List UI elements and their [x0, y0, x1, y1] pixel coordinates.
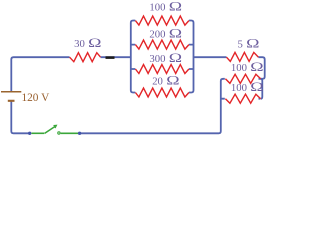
svg-text:100: 100 [231, 82, 247, 94]
svg-text:300: 300 [149, 53, 165, 65]
wire: 30ohm to parallel block [101, 56, 131, 58]
svg-text:Ω: Ω [88, 36, 101, 50]
switch lever [45, 126, 56, 133]
wire: 5ohm right and down to row A [259, 57, 265, 79]
wire: bottom left from switch to battery [11, 101, 29, 133]
resistor R4 300ohm zigzag [135, 65, 189, 74]
svg-text:30: 30 [74, 38, 85, 50]
resistor R7 100ohm zigzag row A [225, 74, 260, 83]
resistor R8 100ohm zigzag row B [225, 94, 260, 103]
junction dot right of switch [78, 132, 81, 135]
svg-text:5: 5 [237, 38, 242, 50]
svg-text:Ω: Ω [169, 27, 182, 41]
svg-text:Ω: Ω [246, 37, 259, 51]
resistor R2 100ohm zigzag [135, 16, 189, 25]
svg-text:Ω: Ω [166, 74, 179, 88]
switch lever arrowhead [54, 125, 57, 128]
battery long plate [1, 91, 21, 93]
wire: block to 5ohm [194, 56, 227, 58]
resistor R5 20ohm zigzag [135, 88, 189, 97]
svg-text:200: 200 [149, 28, 165, 40]
switch wire left green [32, 132, 45, 134]
thick black wire mark [106, 56, 115, 59]
svg-text:100: 100 [149, 2, 165, 14]
switch wire right green [61, 132, 79, 134]
svg-text:Ω: Ω [250, 80, 263, 94]
svg-text:120 V: 120 V [22, 92, 51, 104]
wire: parallel block right bracket [189, 21, 194, 93]
svg-text:20: 20 [152, 75, 163, 87]
switch left contact dot [28, 132, 31, 135]
svg-text:Ω: Ω [250, 60, 263, 74]
resistor R3 200ohm zigzag [135, 40, 189, 49]
resistor R6 5ohm zigzag [227, 52, 259, 61]
switch right contact circle [58, 132, 60, 134]
wire: left rail from battery up and top wire to 30ohm [11, 57, 69, 91]
svg-text:100: 100 [231, 62, 247, 74]
svg-text:Ω: Ω [169, 51, 182, 65]
wire: parallel block left bracket [131, 21, 136, 93]
wire: right bracket rows A-B [259, 79, 263, 99]
resistor R1 30ohm zigzag [70, 53, 101, 62]
svg-text:Ω: Ω [169, 0, 182, 14]
battery short plate [8, 100, 15, 102]
wire: left bracket of pair and feed down to bottom wire [80, 79, 225, 134]
